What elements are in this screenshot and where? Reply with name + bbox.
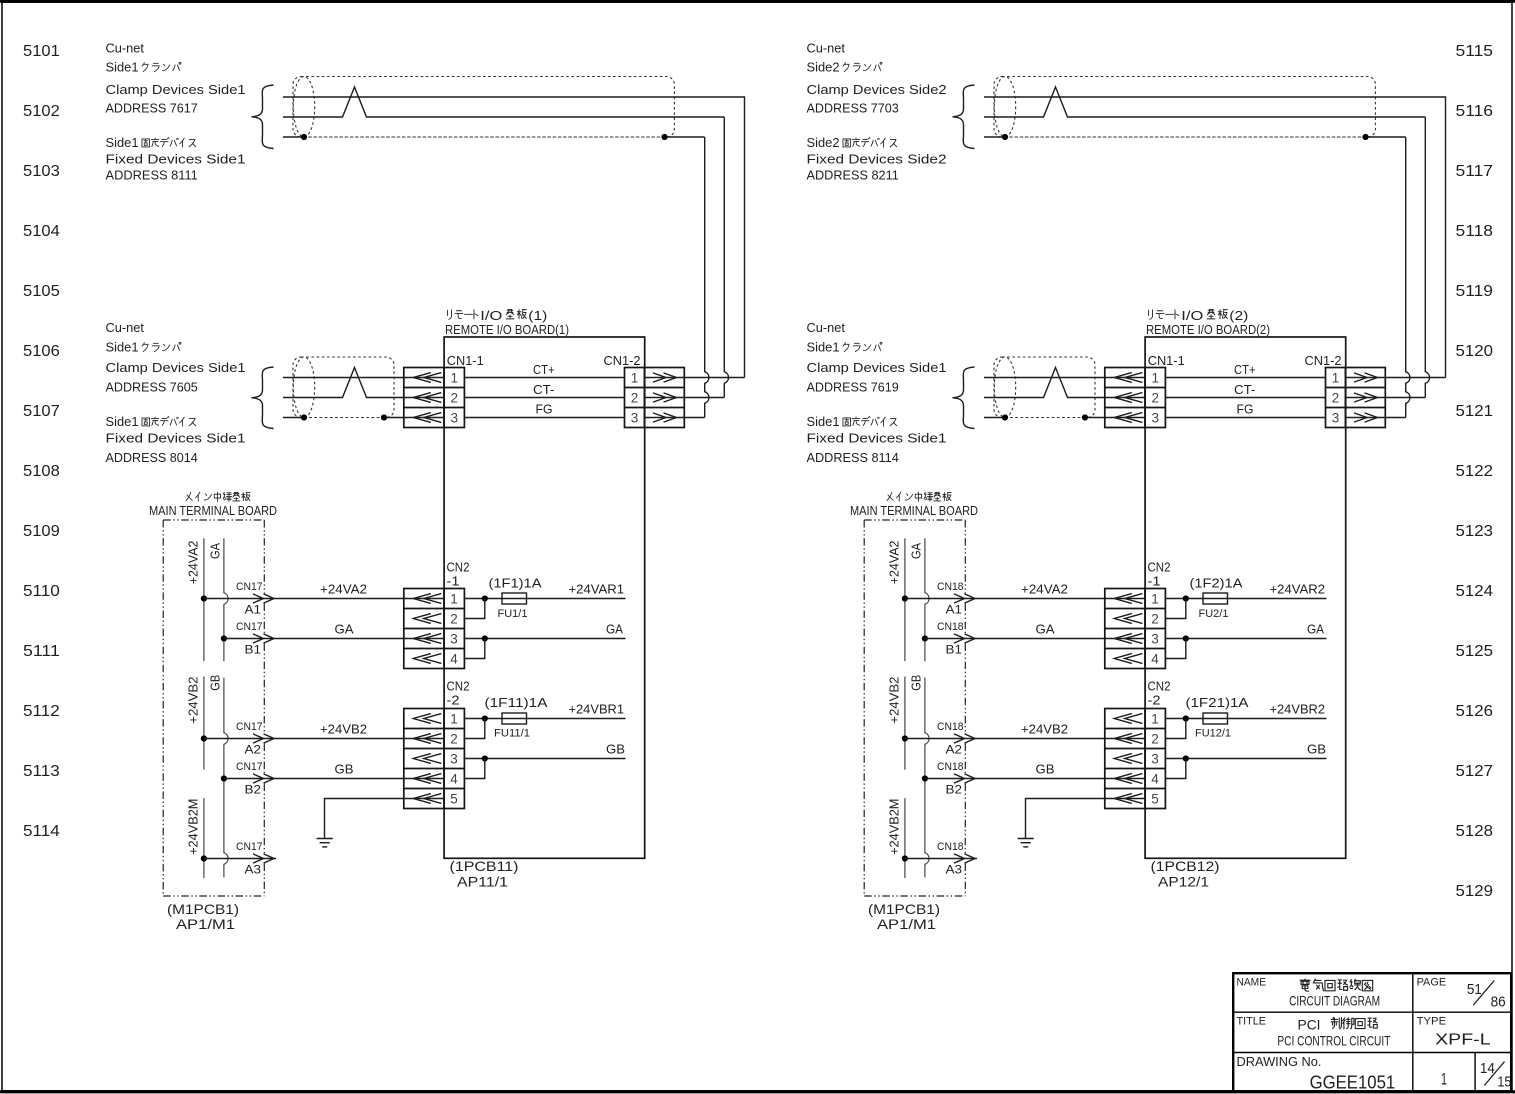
junction pin3/pin4 [1183,635,1189,641]
svg-text:ADDRESS 8111: ADDRESS 8111 [106,168,198,183]
wire CT- with twist symbol into CN1-1 pin2 [283,368,444,398]
svg-text:2: 2 [451,391,459,406]
wire CN2-2 pin5 to ground [325,799,445,839]
svg-text:+24VA2: +24VA2 [887,541,902,585]
svg-text:51: 51 [1467,981,1482,998]
shield junction dots (middle cable) [301,414,307,420]
connector CN17 pin A2 chevron [253,734,274,743]
junction pin3/pin4 [482,635,488,641]
connector CN18 pin B2 chevron [954,774,975,783]
svg-text:A1: A1 [946,603,963,617]
svg-text:4: 4 [450,772,458,787]
svg-text:(1F1)1A: (1F1)1A [489,576,542,591]
svg-text:FU1/1: FU1/1 [498,608,528,620]
bus +24VB2M (vertical) [203,798,205,878]
svg-text:CN1-2: CN1-2 [1305,353,1342,368]
svg-text:CN18: CN18 [937,841,964,853]
svg-text:15: 15 [1497,1074,1511,1091]
svg-text:CN17: CN17 [236,581,263,593]
svg-text:5118: 5118 [1456,223,1494,240]
svg-text:(1F2)1A: (1F2)1A [1190,576,1243,591]
svg-text:Side1: Side1 [807,340,840,355]
REMOTE I/O BOARD (1) outline AP11 [444,337,645,858]
connector CN1-1 [1105,353,1185,428]
svg-text:3: 3 [451,411,459,426]
svg-text:Side1: Side1 [106,60,139,75]
svg-text:A3: A3 [245,863,262,877]
svg-text:Cu-net: Cu-net [106,320,145,335]
svg-text:5105: 5105 [23,283,60,300]
connector CN17 pin A1 chevron [253,594,274,603]
wire CT- [1165,397,1325,399]
wire CN1-2 pin3 output [1346,417,1406,419]
wire CN2-1 pin1 to fuse and +24VAR output [464,598,626,600]
svg-text:(1PCB12): (1PCB12) [1151,858,1220,874]
wire CN18 A3 [905,858,977,860]
svg-text:CT+: CT+ [533,362,555,377]
svg-text:5121: 5121 [1456,403,1494,420]
svg-text:2: 2 [1332,391,1340,406]
wire CN1-2 pin3 output [645,417,705,419]
svg-text:Fixed Devices Side2: Fixed Devices Side2 [807,151,947,166]
svg-text:CN2: CN2 [447,560,470,575]
board title labels [445,308,569,337]
svg-text:+24VB2: +24VB2 [186,677,201,724]
shielded twisted-pair cable W-W1 (dashed outline) [293,77,674,138]
svg-text:AP1/M1: AP1/M1 [176,916,235,932]
svg-text:1: 1 [1151,592,1159,607]
svg-text:FG: FG [1237,402,1254,417]
svg-text:XPF-L: XPF-L [1435,1032,1491,1049]
svg-text:1: 1 [1441,1070,1447,1089]
REMOTE I/O BOARD (2) outline AP12 [1145,337,1346,858]
svg-text:Fixed Devices Side1: Fixed Devices Side1 [106,431,246,446]
svg-text:(2): (2) [1229,308,1248,323]
wire CN1-2 pin1 output [1346,377,1446,379]
wire CN17 A2 [204,738,444,740]
svg-text:CN18: CN18 [937,621,964,633]
shield vertical drop with hops [705,137,709,418]
bus GB (vertical, hops over A2/A3 wires) [224,678,228,878]
wire FG [464,417,624,419]
wire CN18 B2 [925,778,1145,780]
svg-text:CN2: CN2 [1148,679,1171,694]
Cu-net clamp/fixed devices label block (top, W3) [807,41,947,183]
wire CN2-2 pin4 link up [464,759,485,779]
shielded twisted-pair cable (middle, dashed outline) [293,357,394,418]
svg-text:A2: A2 [946,743,963,757]
svg-text:Clamp Devices Side1: Clamp Devices Side1 [807,360,947,375]
svg-text:2: 2 [1151,732,1159,747]
MAIN TERMINAL BOARD outline AP1/M1 (dash-dot) [864,520,965,896]
svg-text:3: 3 [1152,411,1160,426]
junction pin1/pin2 [1183,715,1189,721]
wire CN2-2 pin3 GB output [464,758,626,760]
board title labels [1146,308,1270,337]
fuse FU1/1 (1F1)1A [502,593,527,604]
junction GA/B1 [221,635,227,641]
svg-text:+24VA2: +24VA2 [1021,582,1068,597]
svg-text:A1: A1 [245,603,262,617]
svg-text:CT-: CT- [533,382,555,397]
Cu-net clamp/fixed devices label block (middle, W2) [106,320,246,465]
connector CN2-1 [1105,560,1171,669]
wire CN2-1 pin3 GA output [1165,638,1327,640]
svg-text:CN17: CN17 [236,841,263,853]
wire CT+ into CN1-1 pin1 [984,377,1145,379]
svg-text:GA: GA [335,622,354,637]
svg-text:CN18: CN18 [937,761,964,773]
svg-text:A2: A2 [245,743,262,757]
svg-text:+24VB2: +24VB2 [320,722,367,737]
svg-text:2: 2 [1152,391,1160,406]
connector CN1-1 [404,353,484,428]
svg-text:GB: GB [335,762,354,777]
svg-text:CN17: CN17 [236,721,263,733]
wire CT+ [1165,377,1325,379]
svg-text:5101: 5101 [23,43,60,60]
svg-text:REMOTE I/O BOARD(1): REMOTE I/O BOARD(1) [445,322,569,337]
svg-text:+24VA2: +24VA2 [320,582,367,597]
svg-text:5127: 5127 [1456,763,1494,780]
svg-text:CN18: CN18 [937,721,964,733]
wire CN2-2 pin4 link up [1165,759,1186,779]
svg-text:2: 2 [450,612,458,627]
wire CN18 A1 [905,598,1145,600]
bus GA (vertical, hop over A1 wire) [224,538,228,661]
svg-text:AP11/1: AP11/1 [457,874,508,890]
svg-text:CN18: CN18 [937,581,964,593]
connector CN17 pin B1 chevron [253,634,274,643]
svg-text:PCI: PCI [1298,1017,1321,1033]
wire CT- [464,397,624,399]
brace (top cable group W1) [252,85,274,149]
junction +24VB2M/A3 [201,855,207,861]
wire CT+ [464,377,624,379]
svg-text:PCI CONTROL CIRCUIT: PCI CONTROL CIRCUIT [1277,1033,1390,1049]
svg-text:-2: -2 [447,693,460,708]
connector CN17 pin B2 chevron [253,774,274,783]
svg-text:FU11/1: FU11/1 [494,728,530,740]
wire CN1-2 pin1 output [645,377,745,379]
svg-text:5: 5 [450,792,458,807]
svg-text:I/O: I/O [480,308,502,323]
svg-text:5116: 5116 [1456,103,1494,120]
svg-text:TYPE: TYPE [1417,1016,1447,1028]
wire 2 with twist symbol (top cable) [984,87,1425,117]
svg-text:3: 3 [450,752,458,767]
svg-text:ADDRESS 8114: ADDRESS 8114 [807,450,899,465]
svg-text:5113: 5113 [23,763,60,780]
wire CN2-1 pin1 to fuse and +24VAR output [1165,598,1327,600]
svg-text:5129: 5129 [1456,883,1494,900]
wire CN1-2 pin2 output [1346,397,1426,399]
svg-text:5103: 5103 [23,163,60,180]
svg-text:Fixed Devices Side1: Fixed Devices Side1 [106,151,246,166]
svg-text:ADDRESS 7703: ADDRESS 7703 [807,100,899,115]
svg-text:5114: 5114 [23,823,60,840]
svg-text:Side1: Side1 [807,414,840,429]
svg-text:(1F11)1A: (1F11)1A [485,695,548,710]
shield wire into CN1-1 pin3 [984,417,1005,419]
junction +24VB2/A2 [201,735,207,741]
bus +24VA2 (vertical) [203,538,205,661]
wire FG [1165,417,1325,419]
svg-text:B1: B1 [946,643,963,657]
wire CN17 A1 [204,598,444,600]
shielded twisted-pair cable W-W3 (dashed outline) [994,77,1375,138]
svg-text:+24VB2M: +24VB2M [887,799,902,855]
svg-text:5108: 5108 [23,463,60,480]
svg-text:FU2/1: FU2/1 [1199,608,1229,620]
wire CN18 A2 [905,738,1145,740]
connector CN18 pin A2 chevron [954,734,975,743]
junction GA/B1 [922,635,928,641]
svg-text:CT-: CT- [1234,382,1256,397]
connector CN2-2 [404,679,470,809]
svg-text:5106: 5106 [23,343,60,360]
svg-text:1: 1 [450,592,458,607]
svg-text:1: 1 [1151,712,1159,727]
svg-text:3: 3 [450,632,458,647]
svg-text:3: 3 [1151,752,1159,767]
MAIN TERMINAL BOARD outline AP1/M1 (dash-dot) [163,520,264,896]
svg-text:ADDRESS 7619: ADDRESS 7619 [807,380,899,395]
svg-text:MAIN TERMINAL BOARD: MAIN TERMINAL BOARD [149,503,277,518]
junction +24VA2/A1 [902,595,908,601]
svg-text:2: 2 [1151,612,1159,627]
connector CN2-2 [1105,679,1171,809]
svg-text:5115: 5115 [1456,43,1494,60]
connector CN18 pin A1 chevron [954,594,975,603]
svg-text:Fixed Devices Side1: Fixed Devices Side1 [807,431,947,446]
wire CN2-1 pin2 link up [464,599,485,619]
svg-text:1: 1 [1152,371,1160,386]
svg-text:REMOTE I/O BOARD(2): REMOTE I/O BOARD(2) [1146,322,1270,337]
svg-text:GA: GA [208,543,223,559]
svg-text:(M1PCB1): (M1PCB1) [167,901,239,917]
svg-text:Clamp Devices Side1: Clamp Devices Side1 [106,82,246,97]
svg-text:-1: -1 [447,574,460,589]
svg-text:Side1: Side1 [106,414,139,429]
wire CN2-1 pin2 link up [1165,599,1186,619]
brace (middle cable group) [953,367,975,429]
svg-text:GGEE1051: GGEE1051 [1310,1072,1396,1092]
ground symbol [317,839,333,847]
svg-text:3: 3 [1332,411,1340,426]
Cu-net clamp/fixed devices label block (middle, W4) [807,320,947,465]
svg-text:5124: 5124 [1456,583,1494,600]
svg-text:(1): (1) [528,308,547,323]
svg-text:B2: B2 [946,783,963,797]
svg-text:+24VAR2: +24VAR2 [1270,582,1326,597]
svg-text:5111: 5111 [23,643,60,660]
svg-text:GA: GA [1307,622,1324,637]
svg-text:AP1/M1: AP1/M1 [877,916,936,932]
svg-text:ADDRESS 8211: ADDRESS 8211 [807,168,899,183]
svg-text:Clamp Devices Side1: Clamp Devices Side1 [106,360,246,375]
svg-text:CT+: CT+ [1234,362,1256,377]
svg-text:4: 4 [450,652,458,667]
svg-text:1: 1 [1332,371,1340,386]
svg-text:5122: 5122 [1456,463,1494,480]
brace (middle cable group) [252,367,274,429]
shield vertical drop with hops [1406,137,1410,418]
shield wire (top cable) [984,136,1005,138]
wire CN2-2 pin2 link up [464,719,485,739]
svg-text:B2: B2 [245,783,262,797]
svg-text:I/O: I/O [1181,308,1203,323]
svg-text:-2: -2 [1148,693,1161,708]
svg-text:5125: 5125 [1456,643,1494,660]
junction pin3/pin4 [1183,755,1189,761]
svg-text:2: 2 [450,732,458,747]
main terminal board labels [850,492,978,518]
title block [1233,973,1511,1092]
svg-text:5128: 5128 [1456,823,1494,840]
svg-text:Cu-net: Cu-net [106,41,145,56]
wire 1 (top cable, to CN1-2 pin1 net) [283,97,745,378]
bus +24VB2 (vertical) [203,677,205,770]
svg-text:4: 4 [1151,772,1159,787]
svg-text:5126: 5126 [1456,703,1494,720]
wire 2 with twist symbol (top cable) [283,87,724,117]
junction pin1/pin2 [1183,595,1189,601]
main terminal board labels [149,492,277,518]
svg-text:GB: GB [1036,762,1055,777]
svg-text:5112: 5112 [23,703,60,720]
svg-text:CIRCUIT DIAGRAM: CIRCUIT DIAGRAM [1289,993,1380,1009]
svg-text:-1: -1 [1148,574,1161,589]
svg-text:B1: B1 [245,643,262,657]
svg-text:A3: A3 [946,863,963,877]
svg-text:5123: 5123 [1456,523,1494,540]
svg-text:(1F21)1A: (1F21)1A [1186,695,1249,710]
svg-text:GB: GB [909,675,924,691]
svg-text:(1PCB11): (1PCB11) [450,858,519,874]
svg-text:1: 1 [631,371,639,386]
junction pin1/pin2 [482,715,488,721]
junction GB/B2 [922,775,928,781]
svg-text:2: 2 [631,391,639,406]
svg-text:1: 1 [450,712,458,727]
wire CN17 B1 [224,638,444,640]
wire CN2-2 pin3 GB output [1165,758,1327,760]
fuse FU12/1 (1F21)1A [1203,713,1228,724]
ground symbol [1018,839,1034,847]
connector CN1-2 [1305,353,1386,428]
svg-text:MAIN TERMINAL BOARD: MAIN TERMINAL BOARD [850,503,978,518]
svg-text:Clamp Devices Side2: Clamp Devices Side2 [807,82,947,97]
connector CN2-1 [404,560,470,669]
svg-text:+24VAR1: +24VAR1 [569,582,625,597]
shield junction dots (middle cable) [1002,414,1008,420]
wire 2 vertical drop with hop [724,117,728,398]
wire CN2-1 pin4 link up [1165,639,1186,659]
junction +24VB2/A2 [902,735,908,741]
wire 2 vertical drop with hop [1425,117,1429,398]
svg-text:+24VA2: +24VA2 [186,541,201,585]
svg-text:DRAWING No.: DRAWING No. [1237,1054,1322,1069]
bus +24VB2 (vertical) [904,677,906,770]
wire CN18 B1 [925,638,1145,640]
brace (top cable group W3) [953,85,975,149]
svg-text:ADDRESS 7617: ADDRESS 7617 [106,100,198,115]
connector CN17 pin A3 chevron [253,854,274,863]
wire CN2-1 pin4 link up [464,639,485,659]
junction +24VB2M/A3 [902,855,908,861]
svg-text:86: 86 [1491,994,1506,1011]
wire CN2-2 pin1 to fuse and +24VBR output [1165,718,1327,720]
svg-text:14: 14 [1480,1060,1495,1077]
svg-text:CN1-2: CN1-2 [604,353,641,368]
svg-text:GA: GA [606,622,623,637]
svg-text:5120: 5120 [1456,343,1494,360]
junction +24VA2/A1 [201,595,207,601]
svg-text:ADDRESS 7605: ADDRESS 7605 [106,380,198,395]
shield wire (top cable) [283,136,304,138]
svg-text:GA: GA [909,543,924,559]
svg-text:CN2: CN2 [447,679,470,694]
shield wire into CN1-1 pin3 [283,417,304,419]
svg-text:Side1: Side1 [106,135,139,150]
wire CN2-2 pin1 to fuse and +24VBR output [464,718,626,720]
svg-text:Side1: Side1 [106,340,139,355]
svg-text:Cu-net: Cu-net [807,41,846,56]
svg-text:5117: 5117 [1456,163,1494,180]
connector CN1-2 [604,353,685,428]
svg-text:+24VBR2: +24VBR2 [1270,702,1326,717]
svg-text:TITLE: TITLE [1237,1016,1267,1028]
shield junction dots (top cable) [1002,134,1008,140]
svg-text:GB: GB [606,742,625,757]
svg-text:(M1PCB1): (M1PCB1) [868,901,940,917]
svg-text:CN17: CN17 [236,761,263,773]
svg-text:FG: FG [536,402,553,417]
junction pin1/pin2 [482,595,488,601]
svg-text:+24VBR1: +24VBR1 [569,702,625,717]
svg-text:5: 5 [1151,792,1159,807]
wire CN17 B2 [224,778,444,780]
svg-text:GA: GA [1036,622,1055,637]
svg-text:5107: 5107 [23,403,60,420]
svg-text:PAGE: PAGE [1417,977,1447,989]
svg-text:AP12/1: AP12/1 [1158,874,1209,890]
svg-text:CN1-1: CN1-1 [1148,353,1185,368]
junction GB/B2 [221,775,227,781]
svg-text:CN2: CN2 [1148,560,1171,575]
svg-text:CN1-1: CN1-1 [447,353,484,368]
connector CN18 pin A3 chevron [954,854,975,863]
svg-text:CN17: CN17 [236,621,263,633]
bus GB (vertical, hops over A2/A3 wires) [925,678,929,878]
svg-text:5104: 5104 [23,223,60,240]
fuse FU11/1 (1F11)1A [502,713,527,724]
wire CN17 A3 [204,858,276,860]
svg-text:+24VB2: +24VB2 [887,677,902,724]
junction pin3/pin4 [482,755,488,761]
svg-text:NAME: NAME [1237,977,1267,989]
Cu-net clamp/fixed devices label block (top, W1) [106,41,246,183]
shielded twisted-pair cable (middle, dashed outline) [994,357,1095,418]
bus +24VB2M (vertical) [904,798,906,878]
svg-text:5102: 5102 [23,103,60,120]
svg-text:Side2: Side2 [807,60,840,75]
wire CT+ into CN1-1 pin1 [283,377,444,379]
svg-text:4: 4 [1151,652,1159,667]
wire CN1-2 pin2 output [645,397,725,399]
svg-text:5109: 5109 [23,523,60,540]
